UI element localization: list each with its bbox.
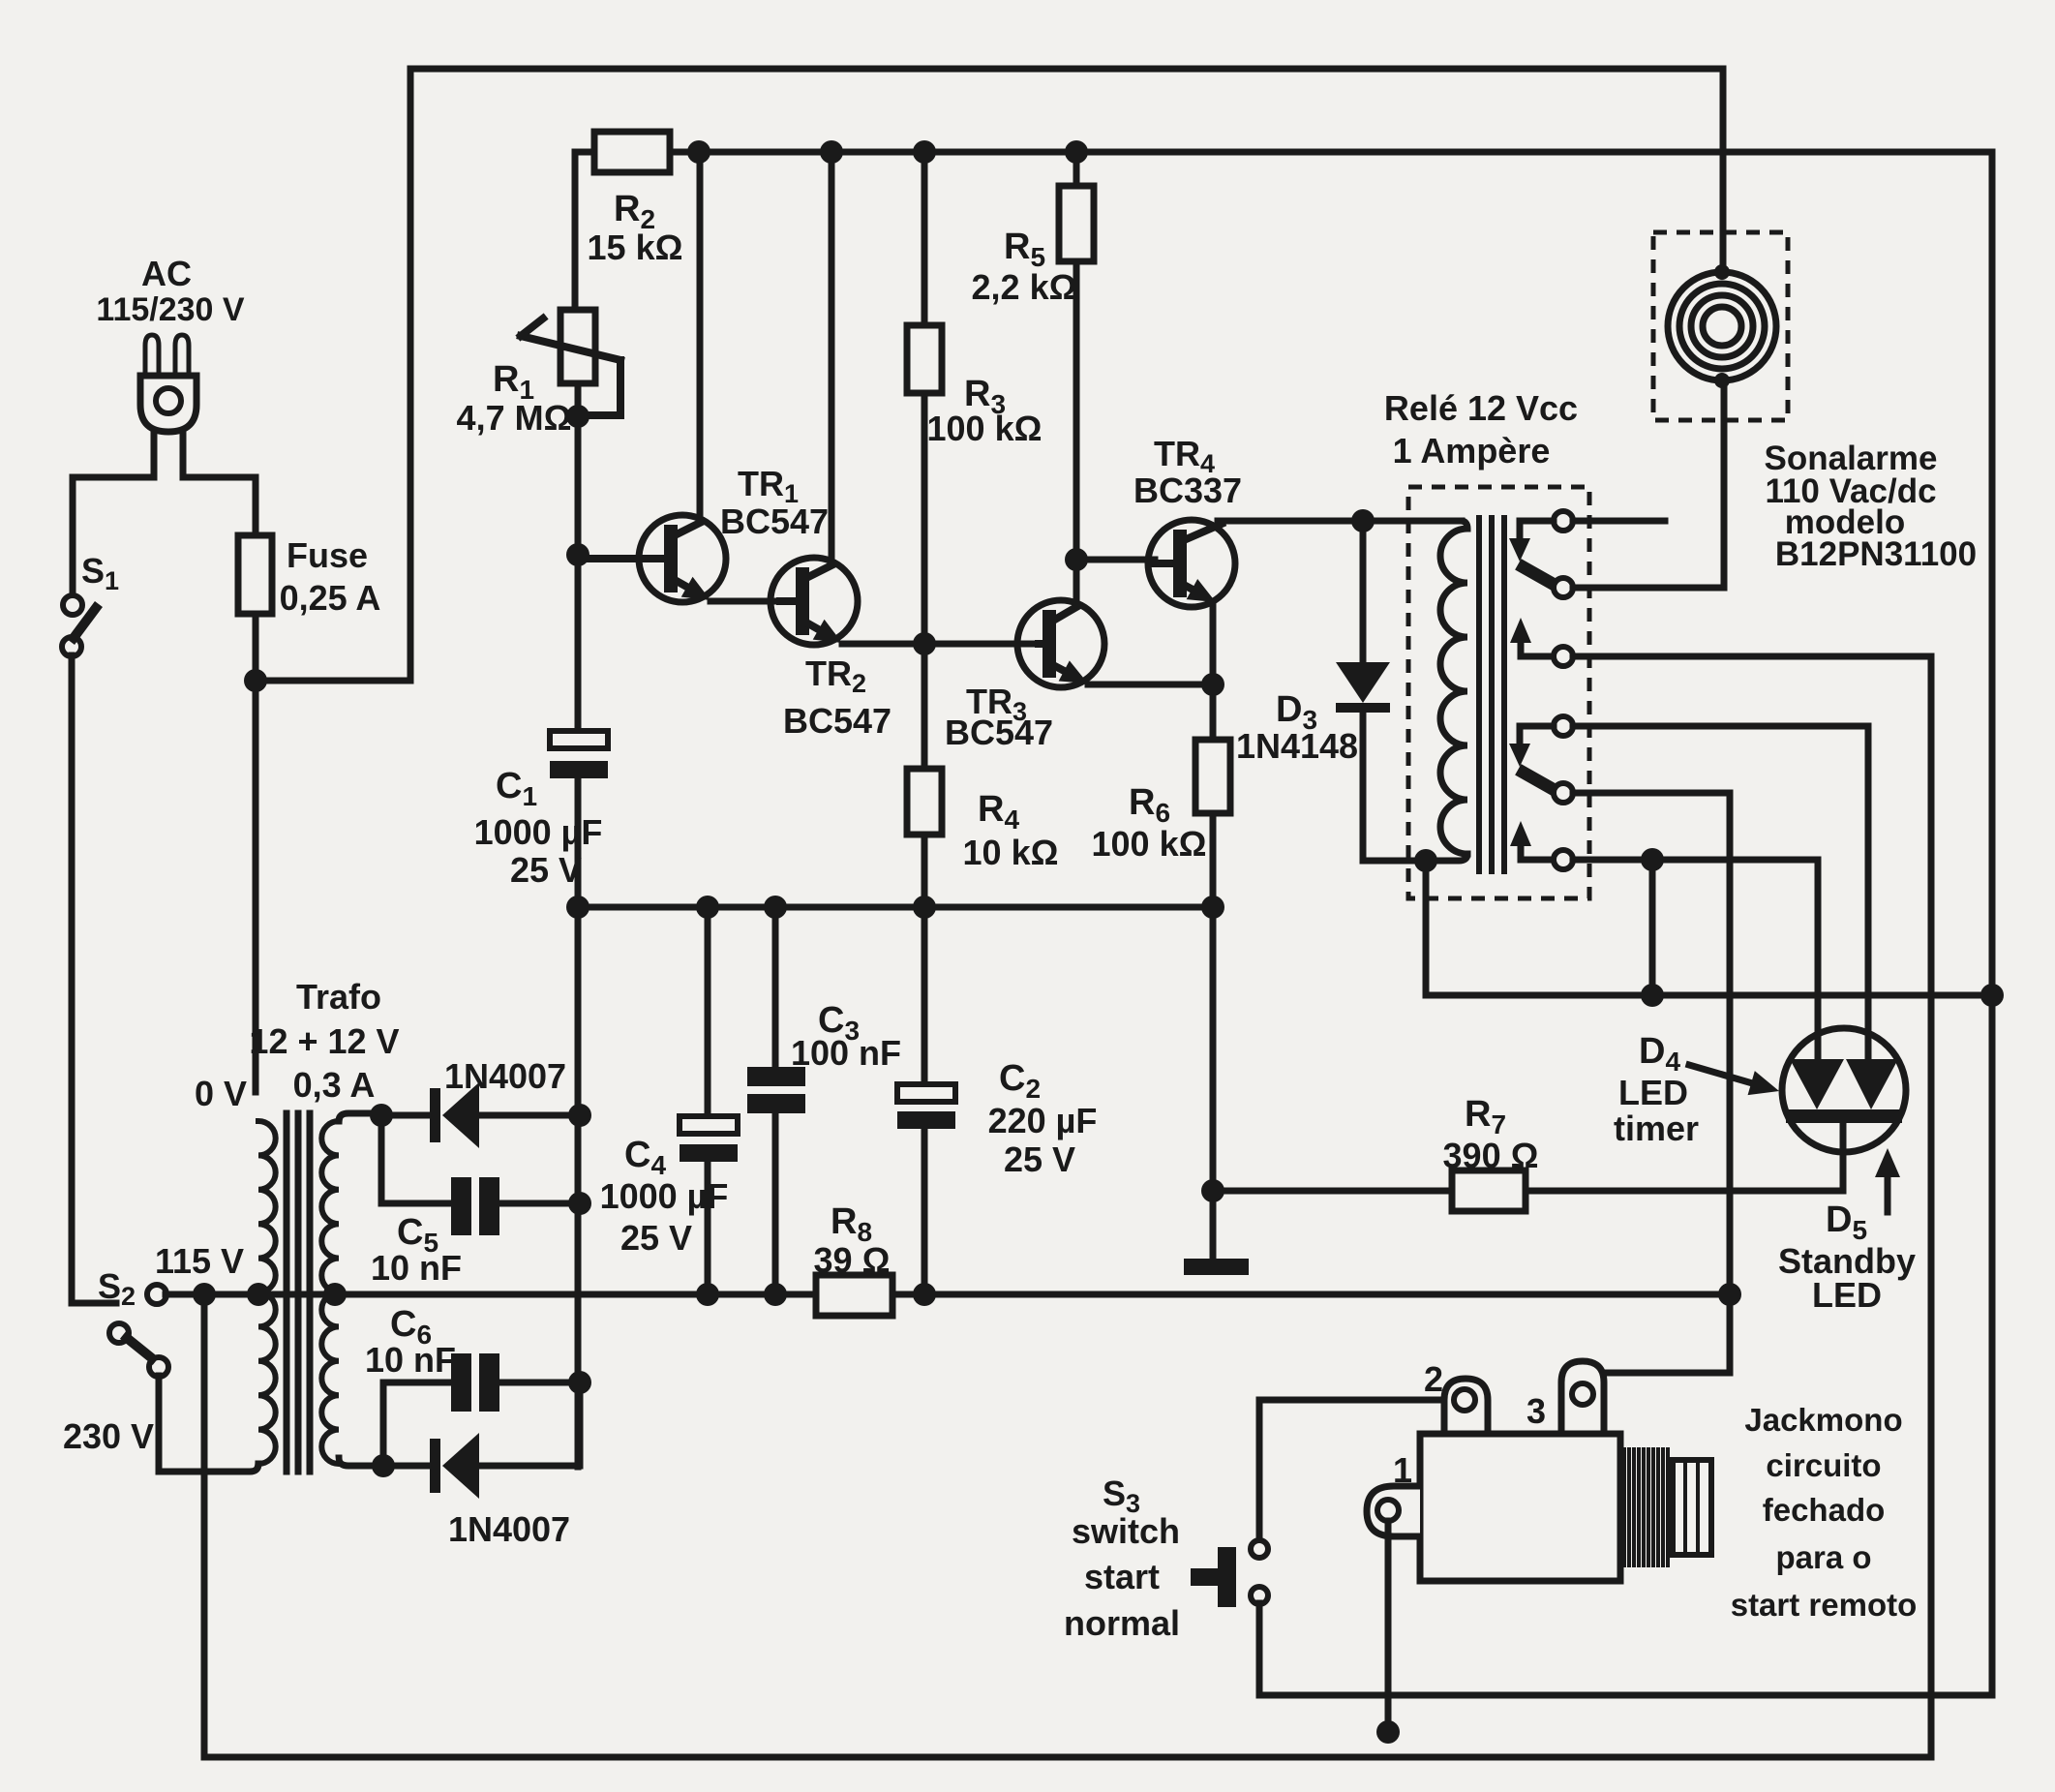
svg-text:1N4148: 1N4148 (1236, 726, 1358, 766)
node secondary top junction (370, 1104, 393, 1127)
wire S3 top (1256, 1400, 1263, 1541)
capacitor C1 plates (550, 731, 608, 778)
wire 115V tap column down (201, 1294, 208, 1757)
AC plug body (140, 376, 196, 432)
node D1 rail junction (568, 1104, 591, 1127)
wire COM1 down right (1928, 656, 1935, 1757)
node mid rail C4 (696, 896, 719, 919)
svg-text:100 kΩ: 100 kΩ (927, 409, 1043, 448)
wire TR1 collector up (697, 152, 704, 521)
arrow to D5 (1875, 1148, 1900, 1212)
wire R6 bottom (1210, 813, 1217, 907)
node coil-bus junction (1641, 984, 1664, 1007)
wire mid rail (578, 904, 1213, 911)
rheostat R1 wiper (521, 319, 620, 415)
wire R6 top (1210, 684, 1217, 740)
transformer primary winding (258, 1121, 276, 1464)
wire +12V rail (575, 149, 1992, 156)
node 0V bus a (193, 1283, 216, 1306)
wire R7 to LED cathode (1526, 1188, 1843, 1195)
svg-text:10 kΩ: 10 kΩ (963, 833, 1059, 872)
wire plug right lead (183, 432, 256, 535)
wire S3 to relay COM1 row (1259, 1692, 1992, 1699)
wire C6 right (499, 1380, 580, 1386)
svg-text:230 V: 230 V (63, 1416, 154, 1456)
svg-text:timer: timer (1614, 1109, 1699, 1148)
svg-text:2: 2 (1424, 1359, 1443, 1399)
wire secondary top lead (339, 1113, 381, 1121)
node rail junction c (913, 140, 936, 164)
svg-text:0,3 A: 0,3 A (293, 1065, 376, 1105)
wire NC2 down to LED D5 (1865, 726, 1872, 1057)
svg-text:25 V: 25 V (510, 850, 582, 890)
node TR1 base junction (566, 543, 589, 566)
wire C2 top (922, 907, 928, 1084)
svg-text:BC547: BC547 (783, 701, 892, 741)
node secondary bottom junction (372, 1454, 395, 1477)
svg-text:circuito: circuito (1766, 1447, 1881, 1483)
svg-text:10 nF: 10 nF (365, 1340, 456, 1380)
node mid rail C1 (566, 896, 589, 919)
relay contact NC1 (1520, 511, 1665, 531)
AC plug prongs (145, 335, 189, 378)
node secondary centre tap (323, 1283, 347, 1306)
node 0V bus right end (1718, 1283, 1741, 1306)
node 0V bus C3 (764, 1283, 787, 1306)
wire COM2 down to LED D4 (1815, 860, 1822, 1057)
wire TR3 collector up (1073, 560, 1080, 605)
capacitor C3 plates (747, 1067, 805, 1113)
wire TR1 emitter to TR2 base (710, 598, 780, 605)
resistor R3 body (907, 325, 942, 393)
svg-text:fechado: fechado (1763, 1492, 1886, 1528)
svg-text:Relé 12 Vcc: Relé 12 Vcc (1384, 388, 1578, 428)
relay pole1 common arrow (1510, 618, 1554, 656)
wire ground stem (1210, 1191, 1217, 1259)
wire C4 top (705, 907, 711, 1116)
node C5 rail junction (568, 1192, 591, 1215)
svg-text:LED: LED (1618, 1073, 1688, 1112)
wire R4 top (922, 644, 928, 769)
wire jack pin1 down (1385, 1521, 1392, 1725)
relay contact COM1 (1554, 647, 1931, 666)
node R5-TR3-TR4 junction (1065, 548, 1088, 571)
svg-text:start remoto: start remoto (1731, 1587, 1918, 1623)
resistor R1 body (rheostat) (560, 310, 595, 383)
wire D3 bottom (1363, 713, 1426, 861)
wire C6 left stub (383, 1382, 451, 1466)
relay contact NC2 (1520, 716, 1868, 736)
node relay coil bottom junction (1414, 849, 1437, 872)
LED D4 D5 pair (1782, 1028, 1906, 1152)
relay contact COM2 (1554, 850, 1818, 869)
node bus right border (1980, 984, 2004, 1007)
diode D3 1N4148 (1336, 662, 1390, 713)
svg-text:BC547: BC547 (720, 501, 829, 541)
relay pole1 armature (1509, 521, 1553, 584)
wire C5 stub (381, 1115, 451, 1203)
diode D1 1N4007 (430, 1082, 479, 1148)
svg-text:2,2 kΩ: 2,2 kΩ (972, 267, 1077, 307)
resistor R5 body (1059, 186, 1094, 261)
svg-text:para o: para o (1775, 1539, 1871, 1575)
fuse F1 0,25A body (238, 535, 272, 614)
svg-text:1000 µF: 1000 µF (600, 1176, 729, 1216)
wire primary bottom lead (159, 1464, 258, 1472)
svg-text:Fuse: Fuse (287, 535, 368, 575)
relay contact NO1 (1554, 578, 1724, 597)
transistor TR1 BC547 (582, 515, 726, 602)
wire jack pin3 to NO2 (1604, 1370, 1730, 1377)
wire C4 bottom (705, 1162, 711, 1294)
svg-text:220 µF: 220 µF (988, 1101, 1098, 1140)
node rail junction b (820, 140, 843, 164)
resistor R4 body (907, 769, 942, 835)
capacitor C2 plates (897, 1084, 955, 1129)
pushbutton S3 plunger (1191, 1547, 1236, 1607)
svg-text:39 Ω: 39 Ω (814, 1240, 891, 1280)
transformer secondary winding (321, 1121, 339, 1464)
svg-text:Trafo: Trafo (296, 977, 381, 1017)
resistor R2 body (594, 132, 670, 172)
node mid rail C3 (764, 896, 787, 919)
resistor R7 body (1452, 1170, 1526, 1211)
ground symbol (1184, 1259, 1249, 1275)
svg-text:12 + 12 V: 12 + 12 V (249, 1021, 399, 1061)
svg-text:1N4007: 1N4007 (444, 1056, 566, 1096)
svg-text:10 nF: 10 nF (371, 1248, 462, 1288)
svg-text:4,7 MΩ: 4,7 MΩ (457, 398, 572, 438)
wire D2 anode side (383, 1463, 430, 1470)
wire R7 left (1213, 1188, 1452, 1195)
wire R5 top (1073, 152, 1080, 186)
jack tip (1673, 1460, 1711, 1555)
jack pin 3 lug (1561, 1361, 1604, 1434)
node mid rail C2 (913, 896, 936, 919)
wire top +V rail (410, 66, 1723, 73)
svg-text:1000 µF: 1000 µF (474, 812, 603, 852)
relay contact NO2 (1554, 783, 1730, 803)
wire LED cathode down (1840, 1123, 1847, 1191)
svg-text:1: 1 (1393, 1450, 1412, 1490)
wire NO1 to sonalarme (1721, 381, 1728, 588)
switch S1 (62, 595, 96, 656)
relay coil (1440, 521, 1467, 854)
transistor TR4 BC337 (1148, 520, 1235, 607)
node jack pin1 end (1376, 1720, 1400, 1744)
node ground-R7 junction (1201, 1179, 1224, 1202)
svg-text:normal: normal (1064, 1603, 1180, 1643)
wire R2 left corner down to R1 (572, 152, 579, 310)
wire TR2 collector up (829, 152, 835, 563)
wire C2 bottom (922, 1129, 928, 1294)
wire speaker top (1720, 69, 1727, 273)
wire centre-tap 0V bus left (166, 1291, 816, 1298)
relay pole2 common arrow (1510, 821, 1554, 860)
node fuse junction (244, 669, 267, 692)
wire COM2 branch down (1649, 860, 1656, 995)
svg-text:25 V: 25 V (620, 1218, 692, 1258)
sonalarme box dashed (1653, 232, 1788, 420)
wire D3 top (1360, 521, 1367, 662)
relay core (1479, 518, 1504, 871)
switch S3 contacts (1251, 1540, 1268, 1604)
wire R5 bottom (1073, 261, 1080, 560)
wire C3 top (772, 907, 779, 1067)
speaker sonalarme (1668, 264, 1776, 388)
wire TR4 emitter down (1210, 604, 1217, 684)
svg-text:1 Ampère: 1 Ampère (1393, 431, 1551, 471)
wire S1 down to S2 area (72, 655, 116, 1303)
node relay COM2 junction (1641, 848, 1664, 871)
wire right border (1989, 152, 1996, 1695)
wire left mains drop (408, 69, 414, 681)
wire R6 column to ground node (1210, 907, 1217, 1191)
node rail-R2 junction a (687, 140, 710, 164)
resistor R6 body (1195, 740, 1230, 813)
svg-text:3: 3 (1526, 1391, 1546, 1431)
node rail junction d (1065, 140, 1088, 164)
svg-text:B12PN31100: B12PN31100 (1775, 535, 1977, 573)
wire TR3 emitter row (1088, 682, 1213, 688)
wire R3 bottom (922, 393, 928, 644)
node primary 115V tap (247, 1283, 270, 1306)
wire R1 to C1 column (575, 383, 582, 731)
capacitor C4 plates (680, 1116, 738, 1162)
capacitor C6 plates (451, 1353, 499, 1412)
transistor TR3 BC547 (1017, 600, 1104, 687)
wire S3 bottom (1256, 1603, 1263, 1695)
svg-text:LED: LED (1812, 1275, 1882, 1315)
resistor R8 body (816, 1275, 892, 1316)
wire coil bottom down (1423, 861, 1430, 995)
jack pin 2 lug (1444, 1379, 1488, 1434)
svg-text:115 V: 115 V (155, 1241, 244, 1281)
svg-text:AC: AC (141, 254, 192, 293)
wire TR2 emitter row (842, 641, 1039, 648)
wire C1 bottom column (575, 778, 582, 1467)
transformer core (287, 1113, 310, 1472)
wire S3 to jack pin2 (1259, 1397, 1465, 1404)
wire NO2 down (1727, 793, 1734, 1373)
wire R3 top (922, 152, 928, 325)
relay pole2 armature (1509, 726, 1553, 789)
svg-text:25 V: 25 V (1004, 1139, 1075, 1179)
wire fuse junction to left rail (256, 678, 410, 684)
wire D1 to +rail (479, 1112, 580, 1119)
wire S2 230V throw down (156, 1376, 163, 1472)
node 0V bus C2 (913, 1283, 936, 1306)
svg-text:100 nF: 100 nF (791, 1033, 901, 1073)
wire coil bottom bus (1426, 992, 1992, 999)
node R6 rail junction (1201, 896, 1224, 919)
svg-text:BC337: BC337 (1133, 471, 1242, 510)
wire D2 to +rail corner (479, 1382, 580, 1466)
wire relay coil bottom lead (1426, 854, 1467, 861)
jack pin 1 lug (1367, 1486, 1420, 1536)
wire D1 anode side (381, 1112, 430, 1119)
wire secondary bottom lead (339, 1458, 383, 1466)
svg-text:Jackmono: Jackmono (1744, 1402, 1902, 1438)
wire plug left lead (73, 432, 154, 596)
transistor TR2 BC547 (771, 558, 858, 645)
node TR2-R3-R4-TR3 junction (913, 632, 936, 655)
wire fuse to junction (253, 614, 259, 681)
wire C3 bottom (772, 1113, 779, 1294)
wire C5 right (499, 1200, 580, 1207)
node C6 rail junction (568, 1371, 591, 1394)
jack bushing ridges (1624, 1449, 1668, 1565)
capacitor C5 plates (451, 1177, 499, 1235)
svg-text:start: start (1084, 1557, 1160, 1596)
svg-text:100 kΩ: 100 kΩ (1092, 824, 1207, 864)
wire TR4 collector row (1218, 518, 1462, 525)
arrow to D4 (1689, 1065, 1779, 1095)
diode D2 1N4007 (430, 1433, 479, 1499)
wire TR4 base (1076, 557, 1155, 563)
svg-text:115/230 V: 115/230 V (96, 291, 244, 328)
wire S2 115V throw (166, 1291, 196, 1298)
node TR4 collector junction (1351, 509, 1375, 532)
jack mono body (1420, 1434, 1620, 1581)
relay box dashed (1408, 487, 1589, 898)
svg-text:0,25 A: 0,25 A (280, 578, 381, 618)
svg-text:390 Ω: 390 Ω (1443, 1136, 1539, 1175)
wire bottom rail (204, 1754, 1931, 1761)
node R1 wiper junction (566, 405, 589, 428)
switch S2 (109, 1285, 168, 1377)
wire R4 bottom (922, 835, 928, 907)
svg-text:BC547: BC547 (945, 713, 1053, 752)
node 0V bus C4 (696, 1283, 719, 1306)
wire relay coil top lead (1363, 518, 1461, 525)
node TR4-TR3 emitter junction (1201, 673, 1224, 696)
svg-text:0 V: 0 V (195, 1074, 247, 1113)
svg-text:15 kΩ: 15 kΩ (588, 228, 683, 267)
wire centre-tap 0V bus right (892, 1291, 1730, 1298)
svg-text:1N4007: 1N4007 (448, 1509, 570, 1549)
wire fuse junction down to trafo primary (253, 681, 259, 1092)
svg-text:switch: switch (1072, 1511, 1180, 1551)
